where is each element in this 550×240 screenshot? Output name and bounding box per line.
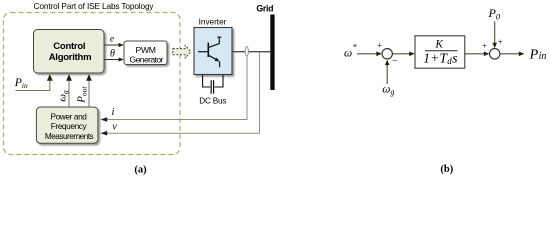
svg-text:Pin: Pin: [529, 47, 547, 62]
svg-text:+: +: [482, 41, 487, 51]
svg-text:PWM: PWM: [136, 45, 156, 55]
svg-text:Measurements: Measurements: [45, 131, 94, 141]
svg-text:v: v: [112, 121, 117, 132]
svg-text:Inverter: Inverter: [199, 18, 227, 27]
svg-text:ωg: ωg: [56, 90, 69, 102]
svg-text:i: i: [112, 107, 115, 118]
svg-text:e: e: [110, 34, 114, 44]
svg-text:Pin: Pin: [14, 76, 28, 90]
svg-text:+: +: [498, 37, 503, 47]
svg-text:Grid: Grid: [256, 4, 273, 14]
svg-text:ωg: ωg: [382, 83, 394, 96]
svg-text:Generator: Generator: [130, 55, 164, 65]
svg-text:1+Tds: 1+Tds: [423, 51, 458, 66]
svg-text:Control Part of ISE Labs Topol: Control Part of ISE Labs Topology: [34, 1, 155, 11]
svg-text:*: *: [353, 41, 357, 51]
svg-text:ω: ω: [344, 48, 352, 60]
svg-text:Algorithm: Algorithm: [49, 52, 92, 63]
svg-text:Power and: Power and: [50, 111, 87, 121]
svg-text:(b): (b): [440, 164, 453, 175]
svg-text:K: K: [434, 39, 444, 51]
svg-text:P0: P0: [488, 6, 501, 21]
svg-text:θ: θ: [110, 49, 115, 60]
svg-text:(a): (a): [134, 165, 147, 176]
svg-text:Frequency: Frequency: [51, 121, 88, 131]
svg-text:DC Bus: DC Bus: [199, 96, 226, 105]
svg-text:Control: Control: [53, 41, 85, 52]
svg-text:+: +: [377, 41, 382, 51]
svg-text:−: −: [392, 56, 398, 67]
svg-text:Pout: Pout: [75, 86, 88, 104]
